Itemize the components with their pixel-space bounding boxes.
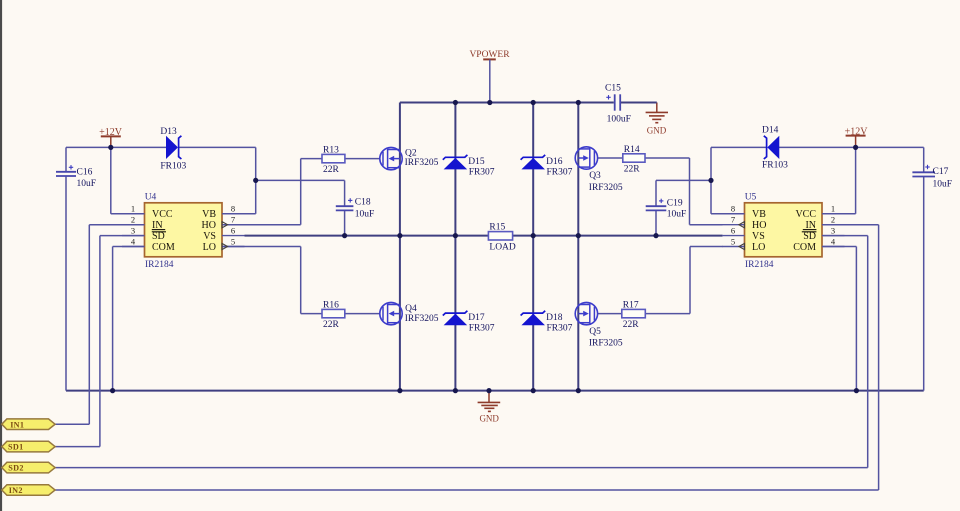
svg-text:U4: U4 xyxy=(145,192,157,202)
wire U5 pin 2 IN xyxy=(823,224,879,226)
wire mid rail right of R15 xyxy=(513,235,723,237)
svg-text:SD2: SD2 xyxy=(8,464,23,473)
wire to U4 pin 8 xyxy=(222,213,256,215)
wire to U5 pin 1 xyxy=(823,213,856,215)
wire U5 pin 3 SD xyxy=(823,235,868,237)
svg-text:1: 1 xyxy=(831,204,835,214)
svg-text:IN2: IN2 xyxy=(9,486,23,495)
junction xyxy=(853,145,858,150)
junction xyxy=(576,388,581,393)
wire VCC riser U4 xyxy=(110,147,112,213)
svg-text:SD: SD xyxy=(152,231,165,242)
svg-text:100uF: 100uF xyxy=(607,114,631,124)
transistor Q5 xyxy=(575,302,623,348)
svg-text:7: 7 xyxy=(231,215,235,225)
ground GND top-right xyxy=(646,103,668,136)
diode D18 xyxy=(521,311,573,334)
junction xyxy=(342,233,347,238)
wire R14 to Q3 gate xyxy=(598,157,623,159)
svg-text:IN1: IN1 xyxy=(10,420,24,429)
svg-text:8: 8 xyxy=(231,204,235,214)
svg-text:3: 3 xyxy=(131,225,135,235)
svg-text:GND: GND xyxy=(647,126,667,136)
wire to U4 pin 1 xyxy=(111,213,145,215)
resistor R16 xyxy=(322,300,345,330)
svg-text:VCC: VCC xyxy=(152,209,173,220)
svg-text:C19: C19 xyxy=(667,199,683,209)
svg-text:SD: SD xyxy=(803,231,816,242)
svg-text:SD1: SD1 xyxy=(8,443,23,452)
junction xyxy=(653,233,658,238)
junction xyxy=(576,100,581,105)
wire VB node to C18 xyxy=(256,179,345,181)
wire to R16 left xyxy=(301,313,322,315)
wire COM vertical right to GND bus xyxy=(855,247,857,391)
svg-text:IRF3205: IRF3205 xyxy=(405,158,439,168)
svg-text:22R: 22R xyxy=(323,320,340,330)
svg-text:8: 8 xyxy=(731,204,735,214)
port SD1 xyxy=(2,441,55,452)
svg-text:1: 1 xyxy=(131,204,135,214)
wire U4 pin 5 LO xyxy=(222,246,301,248)
capacitor C19 xyxy=(646,199,687,220)
wire C19 top lead xyxy=(655,180,657,206)
wire U4 pin 4 COM xyxy=(113,246,145,248)
port SD2 xyxy=(2,462,55,473)
wire C19 bottom lead xyxy=(655,211,657,236)
wire VB drop right xyxy=(710,147,712,213)
wire IN2 long run xyxy=(55,489,879,491)
svg-text:Q3: Q3 xyxy=(589,171,601,181)
wire D14 anode to corner xyxy=(779,146,924,148)
wire mid rail left of R15 xyxy=(245,235,489,237)
power port VPOWER xyxy=(469,50,510,60)
svg-text:VS: VS xyxy=(752,231,765,242)
wire IN1 to port xyxy=(55,423,89,425)
svg-text:IR2184: IR2184 xyxy=(745,260,774,270)
svg-text:R15: R15 xyxy=(489,223,505,233)
wire to U5 pin 8 xyxy=(711,213,745,215)
svg-text:6: 6 xyxy=(731,225,735,235)
svg-text:22R: 22R xyxy=(623,320,640,330)
capacitor C18 xyxy=(336,198,375,220)
resistor R13 xyxy=(322,145,345,175)
wire VPOWER top rail right segment xyxy=(621,102,657,104)
svg-text:6: 6 xyxy=(231,225,235,235)
svg-text:C16: C16 xyxy=(77,168,93,178)
svg-text:3: 3 xyxy=(831,225,835,235)
svg-text:VB: VB xyxy=(202,209,216,220)
junction xyxy=(253,178,258,183)
svg-text:D14: D14 xyxy=(762,126,779,136)
wire SD2 long run xyxy=(55,467,868,469)
diode D15 xyxy=(443,155,495,178)
capacitor C16 xyxy=(56,165,96,189)
wire U4 pin 3 SD xyxy=(100,235,145,237)
wire U5 pin 7 HO xyxy=(690,224,723,226)
junction xyxy=(576,233,581,238)
wire LO drop right xyxy=(689,247,691,314)
svg-text:IR2184: IR2184 xyxy=(145,260,174,270)
junction xyxy=(453,233,458,238)
resistor R17 xyxy=(622,300,646,330)
diode D13 xyxy=(160,127,186,172)
svg-text:5: 5 xyxy=(731,236,735,246)
svg-text:R16: R16 xyxy=(323,300,339,310)
diode D17 xyxy=(443,311,495,334)
svg-text:D16: D16 xyxy=(546,157,563,167)
svg-text:R13: R13 xyxy=(323,145,339,155)
wire D13 cathode to corner xyxy=(179,146,256,148)
svg-text:5: 5 xyxy=(231,236,235,246)
junction xyxy=(453,100,458,105)
svg-text:LO: LO xyxy=(203,242,216,253)
wire SD2 vertical xyxy=(867,236,869,468)
junction xyxy=(531,233,536,238)
diode D16 xyxy=(521,155,573,178)
wire U5 pin 5 LO xyxy=(690,246,723,248)
ground GND bottom xyxy=(478,391,501,424)
svg-text:Q5: Q5 xyxy=(589,327,601,337)
svg-text:C15: C15 xyxy=(605,84,621,94)
power port +12V left xyxy=(99,127,123,147)
junction xyxy=(108,145,113,150)
svg-text:R14: R14 xyxy=(624,145,640,155)
capacitor C17 xyxy=(912,165,952,190)
wire bridge vertical Q2-Q4 xyxy=(399,103,401,391)
svg-text:10uF: 10uF xyxy=(667,210,687,220)
wire R16 to Q4 gate xyxy=(345,313,380,315)
svg-text:C17: C17 xyxy=(933,167,949,177)
wire R13 to Q2 gate xyxy=(345,158,380,160)
svg-text:10uF: 10uF xyxy=(933,180,953,190)
svg-text:FR103: FR103 xyxy=(160,161,186,171)
wire right rail to D14 cathode xyxy=(711,146,766,148)
IC U5 IR2184 xyxy=(722,192,845,270)
svg-text:7: 7 xyxy=(731,215,735,225)
transistor Q4 xyxy=(380,302,439,324)
svg-text:2: 2 xyxy=(831,215,835,225)
port IN1 xyxy=(2,419,55,430)
wire COM vertical to GND bus xyxy=(112,247,114,391)
svg-text:IRF3205: IRF3205 xyxy=(589,183,623,193)
transistor Q3 xyxy=(575,147,623,193)
wire VCC riser U5 xyxy=(855,147,857,213)
wire +12V rail to D13 anode xyxy=(66,146,167,148)
wire VB node to C19 xyxy=(656,179,711,181)
wire C16 top xyxy=(65,147,67,172)
wire VPOWER top rail left segment xyxy=(400,102,614,104)
diode D14 xyxy=(762,126,788,171)
wire C16 bottom to GND bus xyxy=(65,177,67,391)
svg-text:R17: R17 xyxy=(623,300,639,310)
svg-text:VB: VB xyxy=(752,209,766,220)
wire xyxy=(489,59,491,102)
sheet edge line xyxy=(0,0,2,511)
svg-text:C18: C18 xyxy=(355,198,371,208)
wire to R14 right xyxy=(645,157,690,159)
capacitor C15 xyxy=(605,84,631,125)
junction xyxy=(531,388,536,393)
svg-text:FR307: FR307 xyxy=(469,168,495,178)
wire to R13 left xyxy=(301,158,322,160)
power port +12V right xyxy=(845,127,869,148)
wire U4 pin 2 IN xyxy=(89,224,144,226)
wire HO riser right xyxy=(689,158,691,225)
wire LO drop left xyxy=(300,247,302,314)
resistor R15 xyxy=(488,223,516,253)
svg-text:HO: HO xyxy=(752,220,766,231)
svg-text:2: 2 xyxy=(131,215,135,225)
svg-text:IRF3205: IRF3205 xyxy=(589,339,623,349)
svg-text:10uF: 10uF xyxy=(355,209,375,219)
resistor R14 xyxy=(623,145,645,175)
junction xyxy=(854,388,859,393)
wire VB drop left xyxy=(255,147,257,213)
svg-text:GND: GND xyxy=(479,413,499,423)
wire bridge vertical D16-D18 xyxy=(532,103,534,391)
svg-text:U5: U5 xyxy=(745,192,757,202)
junction xyxy=(397,388,402,393)
wire GND bus xyxy=(66,390,924,392)
svg-text:HO: HO xyxy=(202,220,216,231)
junction xyxy=(531,100,536,105)
wire C17 bottom to GND bus xyxy=(923,177,925,391)
junction xyxy=(708,178,713,183)
junction xyxy=(487,100,492,105)
wire bridge vertical D15-D17 xyxy=(454,103,456,391)
junction xyxy=(110,388,115,393)
wire IN1 vertical xyxy=(88,225,90,425)
wire HO riser left xyxy=(300,159,302,225)
wire bridge vertical Q3-Q5 xyxy=(577,103,579,391)
svg-text:VS: VS xyxy=(203,231,216,242)
svg-text:D15: D15 xyxy=(468,157,485,167)
junction xyxy=(397,233,402,238)
svg-text:D17: D17 xyxy=(468,313,485,323)
wire IN2 vertical xyxy=(878,225,880,490)
wire U5 pin 4 COM xyxy=(823,246,856,248)
wire C18 bottom lead xyxy=(344,210,346,235)
wire SD1 to port xyxy=(55,446,100,448)
junction xyxy=(486,388,491,393)
wire U4 pin 7 HO xyxy=(222,224,301,226)
svg-text:D18: D18 xyxy=(546,313,563,323)
svg-text:LO: LO xyxy=(752,242,765,253)
svg-text:10uF: 10uF xyxy=(77,179,97,189)
wire SD1 vertical xyxy=(99,236,101,447)
svg-text:COM: COM xyxy=(152,242,175,253)
svg-text:FR307: FR307 xyxy=(547,323,573,333)
svg-text:IRF3205: IRF3205 xyxy=(405,314,439,324)
wire R17 to Q5 gate xyxy=(598,313,622,315)
svg-text:FR103: FR103 xyxy=(762,161,788,171)
svg-text:LOAD: LOAD xyxy=(489,242,516,252)
svg-text:FR307: FR307 xyxy=(469,323,495,333)
svg-text:VCC: VCC xyxy=(795,209,816,220)
wire C17 top lead xyxy=(923,147,925,172)
svg-text:COM: COM xyxy=(793,242,816,253)
svg-text:FR307: FR307 xyxy=(547,168,573,178)
wire C18 top lead xyxy=(344,180,346,206)
svg-text:22R: 22R xyxy=(323,165,340,175)
svg-text:VPOWER: VPOWER xyxy=(469,50,510,60)
svg-text:22R: 22R xyxy=(624,165,641,175)
transistor Q2 xyxy=(380,147,439,169)
IC U4 IR2184 xyxy=(122,192,245,270)
wire to R17 right xyxy=(645,313,690,315)
svg-text:Q4: Q4 xyxy=(405,304,417,314)
junction xyxy=(453,388,458,393)
port IN2 xyxy=(2,485,55,496)
svg-text:D13: D13 xyxy=(160,127,177,137)
